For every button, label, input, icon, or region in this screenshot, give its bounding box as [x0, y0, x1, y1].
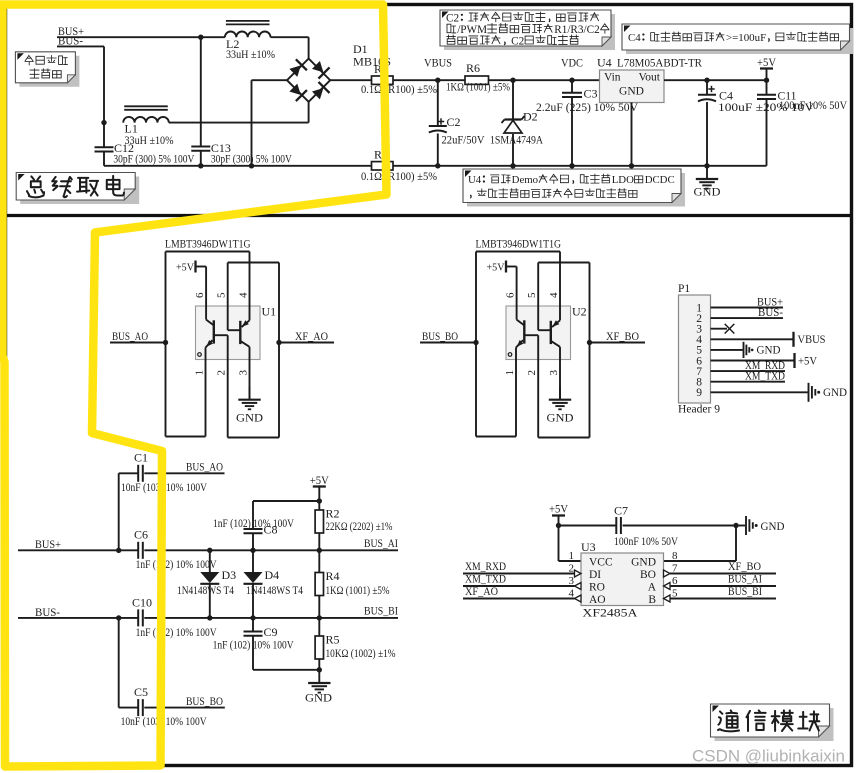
wire L2 to bridge top	[271, 36, 309, 38]
wire U4 GND down	[631, 103, 633, 166]
regulator U4 L78M05ABDT-TR	[600, 70, 665, 103]
junction BUS_BO at U2	[473, 340, 478, 345]
svg-text:1nF (102) 10% 100V: 1nF (102) 10% 100V	[213, 640, 295, 652]
capacitor C2 electrolytic	[437, 80, 439, 126]
capacitor C7 series	[615, 517, 617, 534]
svg-text:U4: U4	[468, 174, 482, 186]
zener diode D2 1SMA4749A	[512, 80, 514, 119]
note: bus input no polarity	[19, 56, 79, 87]
svg-text:XF_BO: XF_BO	[606, 331, 639, 343]
U1 transistor Q-PNP right	[242, 320, 250, 327]
svg-text:GND: GND	[547, 411, 574, 425]
power port +5V top right	[760, 67, 773, 69]
U1 pin 6 wire	[205, 267, 207, 320]
resistor R2	[318, 501, 320, 510]
big label text 总线取电	[27, 176, 44, 197]
svg-text:6: 6	[194, 292, 206, 298]
junction +5V / C8 branch	[317, 498, 322, 503]
junction R5 bottom / ground	[317, 667, 322, 672]
svg-text:C1: C1	[134, 451, 148, 465]
U1 pin 5 wire	[227, 263, 229, 331]
svg-text:C5: C5	[134, 685, 148, 699]
svg-text:C4: C4	[628, 32, 641, 44]
svg-text:BUS+: BUS+	[35, 539, 61, 551]
U2 pin 5 wire	[537, 263, 539, 331]
wire bridge right to R1	[330, 79, 371, 81]
svg-text:9: 9	[696, 387, 702, 399]
junction XF_AO at U1	[276, 340, 281, 345]
IC U3 XF2485A box	[581, 553, 664, 606]
svg-text:C2: C2	[447, 115, 461, 129]
wire BUS- down to L1	[57, 45, 104, 47]
resistor R1	[372, 76, 394, 84]
svg-text:D3: D3	[222, 568, 237, 582]
wire / net label BUS_AI at U3	[670, 585, 776, 587]
svg-text:+5V: +5V	[757, 55, 776, 69]
svg-text:0.1Ω (R100) ±5%: 0.1Ω (R100) ±5%	[361, 171, 438, 183]
svg-text:U4: U4	[597, 56, 612, 70]
svg-text:1: 1	[193, 370, 205, 376]
wire R6 to U4 Vin	[489, 79, 600, 81]
svg-text:1N4148WS T4: 1N4148WS T4	[177, 585, 234, 597]
junction C7/GND/pin8	[733, 523, 738, 528]
resistor R5	[318, 618, 320, 636]
wire U4 Vout to +5V	[664, 79, 767, 81]
U2 transistor Q-PNP right	[552, 320, 560, 327]
svg-text:C7: C7	[614, 504, 628, 518]
wire BUS+ to L2	[57, 36, 225, 38]
ground GND (bottom left)	[318, 670, 320, 683]
bridge rectifier D1 MB10S	[287, 59, 330, 102]
svg-text:BUS_BI: BUS_BI	[364, 606, 398, 618]
svg-text:R4: R4	[326, 569, 340, 583]
capacitor C1	[137, 465, 139, 482]
diode D3 1N4148WS	[207, 548, 212, 553]
U1 outer wire loop (emitters)	[166, 251, 250, 253]
svg-text:XM_TXD: XM_TXD	[745, 371, 785, 383]
svg-text:GND: GND	[305, 691, 332, 705]
wire +5V rail to C7	[559, 525, 617, 527]
wire C1 riser	[118, 473, 120, 550]
svg-text:GND: GND	[619, 86, 644, 98]
label 通信模块 (communication module)	[715, 708, 834, 741]
svg-text:+5V: +5V	[310, 475, 330, 487]
svg-text:BUS-: BUS-	[58, 33, 83, 47]
svg-text:6: 6	[504, 292, 516, 298]
svg-text:GND: GND	[236, 411, 263, 425]
capacitor C3	[571, 80, 573, 93]
svg-text:C2: C2	[511, 35, 524, 47]
section divider line	[4, 214, 851, 217]
svg-text:XM_TXD: XM_TXD	[465, 574, 506, 586]
inductor L1	[123, 117, 169, 123]
bridge diode bottom-right	[310, 82, 329, 101]
svg-text:BUS_AO: BUS_AO	[186, 462, 223, 474]
label 总线取电 (bus power section)	[20, 177, 139, 205]
wire / net label BUS_BO (bottom)	[144, 707, 225, 709]
junction C13 bottom	[198, 163, 203, 168]
power port +5V (bottom)	[313, 485, 326, 487]
U2 pin 2 wire	[537, 335, 539, 437]
svg-text:BUS_BI: BUS_BI	[728, 586, 762, 598]
U2 outer wire loop (emitters)	[476, 251, 560, 253]
svg-text:A: A	[648, 582, 657, 594]
svg-text:10KΩ (1002) ±1%: 10KΩ (1002) ±1%	[326, 648, 396, 660]
junction R2/R4 on BUS_AI	[317, 548, 322, 553]
wire R1 to VBUS	[393, 79, 438, 81]
capacitor C6 series in BUS+	[137, 542, 139, 559]
svg-text:+5V: +5V	[549, 504, 569, 516]
U1 transistor Q-NPN left	[206, 320, 214, 326]
P1 pin 5 wire / GND	[711, 349, 743, 351]
svg-text:VBUS: VBUS	[424, 56, 452, 70]
svg-text:XF_AO: XF_AO	[465, 586, 498, 598]
note C2 explanation	[444, 14, 615, 50]
wire pin8 from rail	[735, 526, 737, 562]
P1 pin 8 wire / XM_TXD	[711, 381, 786, 383]
P1 pin 3 wire / no connect X	[711, 328, 728, 330]
svg-text:2: 2	[216, 370, 228, 376]
bridge diode top-right	[310, 59, 329, 78]
junction C11/+5V	[764, 78, 769, 83]
capacitor C5	[137, 699, 139, 716]
U2 transistor Q-NPN left	[517, 320, 525, 326]
svg-text:P1: P1	[678, 283, 690, 295]
svg-text:BUS_AI: BUS_AI	[364, 538, 398, 550]
svg-text:D4: D4	[265, 568, 280, 582]
wire L1 to bridge bottom	[169, 122, 309, 124]
U2 pin 6 wire	[516, 267, 518, 320]
svg-text:C6: C6	[134, 528, 148, 542]
U1 pin 2 wire	[227, 335, 229, 437]
svg-text:VDC: VDC	[561, 56, 583, 70]
junction BUS_AO at U1	[163, 340, 168, 345]
P1 pin 1 wire / BUS+	[711, 307, 784, 309]
U2 pin 3 wire to ground	[559, 347, 561, 400]
svg-text:RO: RO	[589, 582, 605, 594]
svg-text:22uF/50V: 22uF/50V	[442, 135, 486, 147]
svg-text:/PWM: /PWM	[457, 24, 487, 36]
svg-text:GND: GND	[694, 185, 721, 199]
svg-text:C9: C9	[264, 625, 278, 639]
junction BUS-/L1/C12	[101, 120, 106, 125]
wire C7 to GND corner	[623, 525, 736, 527]
svg-text:1nF (102) 10% 100V: 1nF (102) 10% 100V	[213, 518, 295, 530]
svg-text:R6: R6	[466, 61, 480, 75]
diode D4 1N4148WS	[250, 548, 255, 553]
junction XF_BO at U2	[587, 340, 592, 345]
wire / net label XF_AO	[279, 342, 334, 344]
svg-text:LMBT3946DW1T1G: LMBT3946DW1T1G	[476, 237, 562, 251]
svg-text:U3: U3	[581, 540, 596, 554]
svg-text:3: 3	[237, 370, 249, 376]
svg-text:GND: GND	[761, 521, 785, 533]
svg-text:1KΩ (1001) ±5%: 1KΩ (1001) ±5%	[446, 82, 510, 94]
U2 inner wire loop (bases)	[538, 262, 589, 264]
capacitor C9	[252, 618, 254, 632]
svg-text:Demo: Demo	[512, 174, 538, 186]
svg-text:BUS_BO: BUS_BO	[422, 331, 458, 343]
junction C2 bottom	[435, 163, 440, 168]
U2 body box	[506, 306, 571, 360]
svg-text:1nF (102) 10% 100V: 1nF (102) 10% 100V	[136, 627, 218, 639]
big label text 通信模块	[718, 710, 739, 731]
svg-text:CSDN @liubinkaixin: CSDN @liubinkaixin	[692, 747, 845, 766]
note C4 explanation	[626, 28, 854, 54]
svg-text:+5V: +5V	[487, 262, 505, 274]
header P1 box	[679, 295, 711, 403]
capacitor C11	[766, 80, 768, 95]
capacitor C8	[244, 528, 263, 530]
junction +5V rail	[556, 523, 561, 528]
svg-text:L78M05ABDT-TR: L78M05ABDT-TR	[617, 56, 702, 70]
svg-text:R5: R5	[326, 633, 340, 647]
svg-text:30pF (300) 5% 100V: 30pF (300) 5% 100V	[113, 154, 195, 166]
junction VDC/C3	[569, 78, 574, 83]
minus rail with R3	[104, 165, 372, 167]
svg-text:LDO: LDO	[612, 174, 634, 186]
wire / net label BUS_AO	[110, 342, 166, 344]
svg-text:AO: AO	[589, 594, 606, 606]
U1 ground	[249, 387, 251, 400]
svg-text:BUS_AI: BUS_AI	[728, 574, 762, 586]
P1 pin 7 wire / XM_RXD	[711, 370, 786, 372]
svg-text:1N4148WS T4: 1N4148WS T4	[246, 585, 303, 597]
resistor R6	[465, 76, 489, 84]
inductor L2	[225, 32, 271, 38]
svg-text:3: 3	[548, 370, 560, 376]
svg-text:1SMA4749A: 1SMA4749A	[490, 135, 544, 147]
svg-text:XF_AO: XF_AO	[295, 331, 328, 343]
svg-text:GND: GND	[757, 345, 781, 357]
resistor R4	[318, 550, 320, 572]
svg-text:XM_RXD: XM_RXD	[465, 561, 506, 573]
junction C1 riser on BUS+	[116, 548, 121, 553]
svg-text:BUS_AO: BUS_AO	[112, 331, 148, 343]
svg-text:DI: DI	[589, 569, 601, 581]
wire VBUS to R6	[438, 79, 465, 81]
svg-text:BO: BO	[640, 569, 656, 581]
svg-text:1: 1	[504, 370, 516, 376]
wire / net label XM_RXD at U3	[463, 573, 575, 575]
P1 pin 6 wire / +5V port	[711, 360, 795, 362]
svg-text:+5V: +5V	[176, 262, 194, 274]
junction D2 top	[510, 78, 515, 83]
svg-text:GND: GND	[631, 557, 656, 569]
wire / net label BUS_BI at U3	[670, 598, 776, 600]
svg-text:XF2485A: XF2485A	[582, 606, 637, 620]
svg-text:B: B	[648, 594, 656, 606]
svg-text:22KΩ (2202) ±1%: 22KΩ (2202) ±1%	[326, 521, 393, 533]
svg-text:R2: R2	[326, 507, 340, 521]
note U4 explanation	[467, 173, 685, 207]
junction D2 bottom	[510, 163, 515, 168]
svg-text:Vout: Vout	[638, 72, 660, 84]
svg-text:VCC: VCC	[589, 557, 613, 569]
svg-text:XF_BO: XF_BO	[728, 561, 761, 573]
svg-text:5: 5	[526, 292, 538, 298]
svg-text:+5V: +5V	[798, 355, 818, 367]
junction C5 riser on BUS-	[116, 615, 121, 620]
svg-text:100nF 10% 50V: 100nF 10% 50V	[614, 536, 679, 548]
wire pin1 to +5V	[558, 526, 560, 562]
U1 pin 3 wire to ground	[249, 347, 251, 400]
wire to side ground	[736, 525, 745, 527]
svg-text:1nF (102) 10% 100V: 1nF (102) 10% 100V	[136, 559, 218, 571]
ground GND (right of C7)	[745, 516, 747, 535]
resistor R3	[372, 162, 394, 170]
wire / net label XF_AO at U3	[463, 598, 575, 600]
wire / net label BUS_BO	[420, 342, 476, 344]
P1 pin 4 wire / VBUS port	[711, 338, 794, 340]
svg-text:4: 4	[237, 292, 249, 298]
wire / net label BUS_AO (bottom)	[144, 472, 224, 474]
capacitor C13	[200, 37, 202, 146]
wire C8 branch	[253, 500, 319, 502]
yellow highlighter loop	[0, 5, 387, 767]
svg-text:R1/R3/C2: R1/R3/C2	[554, 24, 599, 36]
junction C4 bottom / GND	[704, 163, 709, 168]
junction U4 GND	[629, 163, 634, 168]
junction C4	[704, 78, 709, 83]
junction R4/R5 on BUS_BI	[317, 615, 322, 620]
U1 inner wire loop (bases)	[228, 262, 279, 264]
P1 pin 9 wire / GND	[711, 391, 808, 393]
svg-text:BUS_BO: BUS_BO	[186, 696, 223, 708]
capacitor C12	[103, 123, 105, 148]
svg-text:Header 9: Header 9	[678, 404, 720, 416]
wire / net label XF_BO at U3	[670, 573, 776, 575]
svg-text:>=100uF: >=100uF	[726, 32, 766, 44]
svg-text:33uH ±10%: 33uH ±10%	[226, 49, 276, 61]
U2 pin 4 wire	[559, 252, 561, 321]
junction VBUS/C2	[435, 78, 440, 83]
capacitor C10 series in BUS-	[137, 609, 139, 626]
svg-text:8: 8	[672, 550, 678, 562]
svg-text:C3: C3	[584, 87, 598, 101]
U1 pin 4 wire	[249, 252, 251, 321]
capacitor C4 electrolytic	[706, 80, 708, 95]
svg-text:U2: U2	[572, 305, 587, 319]
bridge diode left-bottom	[288, 82, 307, 101]
ground GND top section	[706, 166, 708, 179]
bridge diode left-top	[288, 59, 307, 78]
wire bridge left to minus rail	[252, 79, 288, 81]
svg-text:BUS-: BUS-	[758, 307, 783, 319]
junction C3 bottom	[569, 163, 574, 168]
U2 ground	[559, 387, 561, 400]
P1 pin 2 wire / BUS-	[711, 317, 784, 319]
svg-text:Vin: Vin	[604, 72, 621, 84]
power port +5V at U3	[552, 514, 565, 516]
wire / net label XF_BO	[590, 342, 646, 344]
svg-text:5: 5	[216, 292, 228, 298]
wire / net label XM_TXD at U3	[463, 585, 575, 587]
BUS+ / BUS_AI line	[18, 549, 138, 551]
svg-text:C10: C10	[132, 596, 152, 610]
U2 pin 1 wire	[515, 348, 517, 437]
U1 pin 1 wire	[205, 348, 207, 437]
svg-text:C2: C2	[446, 12, 459, 24]
svg-text:100nF 10% 50V: 100nF 10% 50V	[779, 100, 848, 112]
svg-text:4: 4	[548, 292, 560, 298]
svg-text:1KΩ (1001) ±5%: 1KΩ (1001) ±5%	[326, 585, 390, 597]
svg-text:2: 2	[526, 370, 538, 376]
svg-text:LMBT3946DW1T1G: LMBT3946DW1T1G	[165, 237, 251, 251]
wire rail right of R3	[393, 165, 767, 167]
BUS- / BUS_BI line	[18, 617, 138, 619]
svg-text:L1: L1	[125, 122, 138, 136]
junction minus rail	[249, 163, 254, 168]
junction BUS+/C13	[198, 35, 203, 40]
svg-text:VBUS: VBUS	[798, 334, 826, 346]
svg-text:1: 1	[569, 550, 575, 562]
wire C5 riser	[118, 618, 120, 708]
svg-text:C4: C4	[719, 89, 733, 103]
U3 pin triangles	[575, 570, 582, 577]
svg-text:GND: GND	[823, 387, 847, 399]
U1 body box	[196, 306, 261, 360]
svg-text:U1: U1	[262, 305, 277, 319]
svg-text:DCDC: DCDC	[645, 174, 675, 186]
svg-text:2.2uF (225) 10% 50V: 2.2uF (225) 10% 50V	[536, 102, 639, 114]
svg-text:0.1Ω (R100) ±5%: 0.1Ω (R100) ±5%	[361, 84, 438, 96]
